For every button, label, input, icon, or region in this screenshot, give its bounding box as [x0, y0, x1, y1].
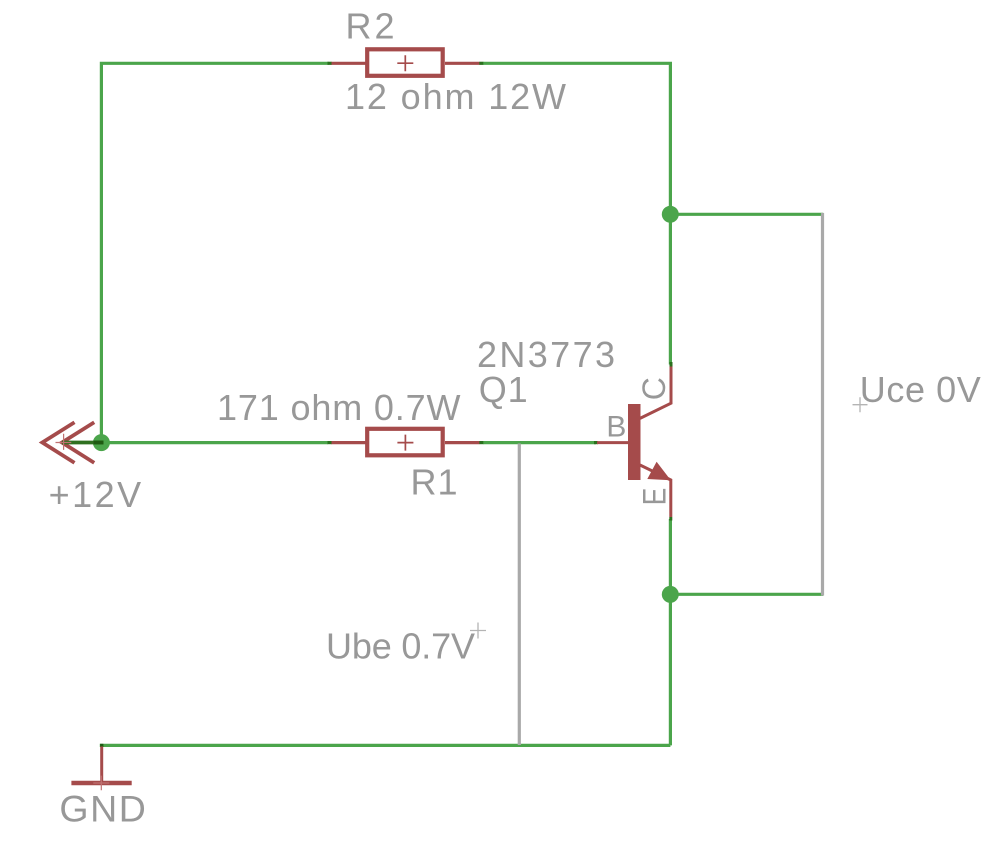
supply pin line: [62, 441, 104, 445]
wire base net from +12V junction to R1: [101, 441, 328, 444]
base bar: [628, 404, 641, 480]
svg-text:GND: GND: [59, 788, 145, 830]
base pin: [597, 441, 629, 444]
svg-text:Ube 0.7V: Ube 0.7V: [326, 625, 475, 666]
svg-text:R1: R1: [411, 462, 458, 503]
collector lead: [640, 364, 671, 418]
wire Uce sense stub bottom: [670, 593, 823, 596]
emitter arrow: [647, 462, 671, 480]
wire collector column below junction: [669, 214, 672, 364]
transistor Q1: [597, 362, 671, 521]
svg-text:Q1: Q1: [479, 369, 528, 410]
wire top net from +12V rail to R2 and collector column: [101, 63, 670, 442]
node junction dot at emitter: [662, 586, 679, 603]
svg-text:+12V: +12V: [49, 474, 142, 515]
ground GND symbol: [71, 745, 131, 790]
wire Uce sense stub top: [670, 213, 823, 216]
wire base net from R1 to Q1 base: [483, 441, 596, 444]
svg-text:C: C: [636, 377, 672, 400]
node junction dot at +12V rail: [93, 434, 110, 451]
supply +12V symbol: [42, 422, 94, 463]
node junction dot at collector: [662, 206, 679, 223]
origin cross Ube: [470, 623, 486, 639]
supply origin cross: [56, 434, 72, 450]
svg-text:R2: R2: [346, 6, 395, 47]
svg-text:Uce 0V: Uce 0V: [860, 369, 981, 410]
emitter lead: [640, 465, 671, 517]
wire emitter net down to bottom rail: [669, 519, 672, 745]
wire bottom ground rail: [101, 745, 670, 747]
svg-text:E: E: [636, 488, 672, 506]
resistor R1: [328, 429, 599, 456]
resistor R2: [328, 49, 484, 76]
measurement line Uce: [821, 213, 824, 596]
svg-text:12 ohm 12W: 12 ohm 12W: [345, 76, 566, 117]
svg-text:171 ohm 0.7W: 171 ohm 0.7W: [217, 387, 461, 428]
svg-text:B: B: [606, 410, 626, 443]
origin cross Uce: [853, 397, 868, 412]
measurement line Ube: [518, 444, 521, 746]
